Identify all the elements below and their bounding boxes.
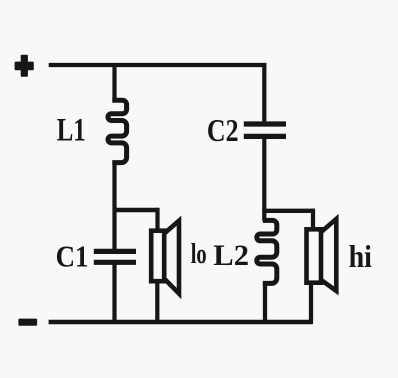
wire bottom <box>49 320 313 325</box>
wire left branch middle <box>112 161 116 250</box>
wire lo branch horizontal <box>113 208 159 212</box>
svg-text:L2: L2 <box>213 239 249 272</box>
wire left branch lower <box>112 265 116 323</box>
wire top <box>49 63 267 67</box>
capacitor C1 <box>94 251 136 262</box>
svg-text:lo: lo <box>191 238 207 270</box>
capacitor C2 <box>244 124 286 136</box>
wire lo branch vertical <box>155 208 159 231</box>
wire right branch middle <box>262 139 266 221</box>
speaker hi cone <box>321 219 336 291</box>
svg-text:hi: hi <box>349 238 372 274</box>
wire hi bottom <box>309 283 313 322</box>
wire left branch upper <box>112 63 116 101</box>
wire right branch upper <box>262 63 266 123</box>
inductor L2 <box>257 220 277 283</box>
inductor L1 <box>108 100 127 162</box>
svg-text:L1: L1 <box>57 112 86 148</box>
speaker hi driver <box>307 229 322 282</box>
speaker lo cone <box>164 221 179 294</box>
- terminal <box>18 319 37 326</box>
speaker lo driver <box>151 231 164 282</box>
wire lo bottom <box>155 281 159 322</box>
wire hi branch horizontal <box>262 209 313 213</box>
wire hi branch vertical <box>311 209 315 229</box>
wire right branch lower <box>263 282 267 322</box>
svg-text:C2: C2 <box>207 112 239 148</box>
+ terminal <box>15 55 34 77</box>
svg-text:C1: C1 <box>56 238 89 273</box>
